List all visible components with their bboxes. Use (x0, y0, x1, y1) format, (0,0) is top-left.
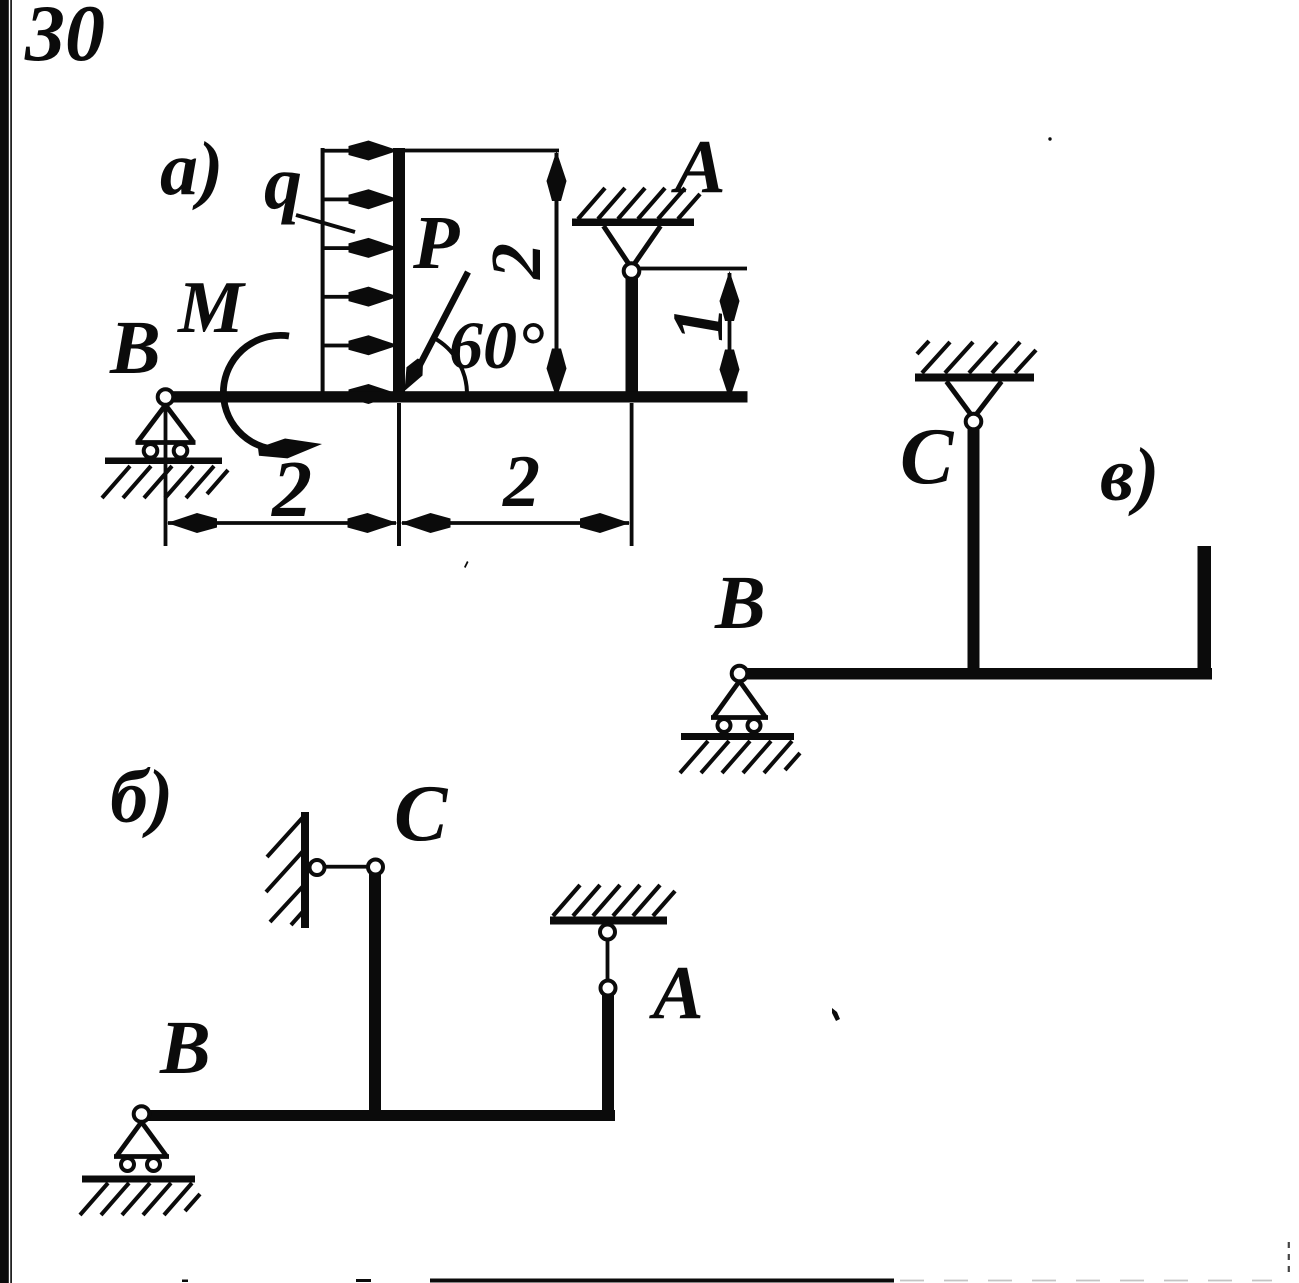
svg-text:1: 1 (658, 306, 738, 342)
svg-text:A: A (649, 951, 704, 1035)
support B triangle (136, 405, 196, 443)
bottom faint dashes (900, 1280, 1272, 1282)
dimension 1 (vertical) (720, 271, 740, 400)
distributed load q: left border line (321, 148, 325, 394)
support B (v) triangle (711, 681, 768, 718)
pin at A (624, 263, 640, 279)
stray ink dot top right (1048, 137, 1051, 140)
support C link triangle (947, 382, 1002, 419)
support B (b) triangle (114, 1122, 169, 1157)
svg-text:M: M (177, 267, 246, 349)
support A hatching (578, 188, 700, 219)
page gutter bar left edge (0, 0, 12, 1283)
svg-text:A: A (671, 125, 726, 209)
right upright stub (1198, 546, 1212, 680)
load arrow 1 (321, 141, 399, 161)
svg-text:2: 2 (476, 243, 556, 280)
stray ink speck (832, 1008, 840, 1021)
ground hatching under B (b) (80, 1183, 200, 1215)
svg-text:60°: 60° (449, 307, 544, 383)
extension line through support B (164, 405, 168, 546)
support C hatching (917, 341, 1036, 373)
support A link triangle (604, 226, 661, 268)
load arrow 4 (321, 287, 399, 307)
svg-text:B: B (159, 1006, 211, 1090)
rollers under B (b) (121, 1158, 160, 1171)
support C ceiling line (915, 374, 1034, 382)
support A (b) hatching (553, 885, 675, 916)
ground hatching under B (102, 466, 228, 498)
svg-text:B: B (109, 306, 161, 390)
svg-text:2: 2 (271, 446, 312, 534)
link bar wall to C (323, 865, 369, 869)
load arrow 2 (321, 189, 399, 209)
dimension extension line at column (397, 403, 401, 546)
force P arrow (396, 272, 468, 395)
svg-text:C: C (900, 413, 955, 501)
beam a) (163, 391, 748, 402)
link bar A (b) (606, 939, 610, 981)
ground line under B (105, 458, 222, 465)
svg-text:P: P (412, 201, 460, 285)
rollers under B (v) (718, 719, 761, 732)
ground line under B (b) (82, 1176, 195, 1183)
hanger bar C (v) (968, 429, 980, 679)
ground line under B (v) (681, 733, 794, 740)
svg-text:C: C (394, 770, 449, 858)
pin at B (v) (732, 666, 748, 682)
upper pin A (b) (600, 925, 615, 940)
dimension extension line at A hanger (630, 403, 634, 546)
60 degree angle arc (434, 338, 467, 393)
extension line at pin level (639, 267, 747, 271)
load arrow 6 on beam (349, 384, 399, 404)
dimension line column to A, value 2 (401, 513, 631, 533)
pin at C (b) (368, 860, 383, 875)
hanger bar A (b) (602, 995, 614, 1121)
leader line for q (296, 215, 355, 232)
load arrow 5 (321, 335, 399, 355)
svg-text:30: 30 (24, 0, 105, 78)
svg-text:б): б) (110, 755, 173, 839)
svg-text:B: B (714, 561, 766, 645)
hanger bar A (626, 278, 639, 402)
beam b) (139, 1110, 615, 1121)
svg-text:a): a) (160, 127, 223, 211)
pin at B (158, 389, 174, 405)
pin at wall (310, 860, 325, 875)
beam v) (739, 668, 1212, 680)
dimension line B to column, value 2 (167, 513, 398, 533)
top tie line to dimension (398, 149, 559, 153)
right edge dashes (1288, 1242, 1290, 1277)
svg-text:2: 2 (502, 441, 540, 523)
wall line (301, 812, 309, 928)
hanger bar C (b) (369, 874, 381, 1121)
pin at C (v) (966, 414, 982, 430)
pin at B (b) (134, 1106, 150, 1122)
moment M arc arrow (223, 335, 323, 461)
wall hatching (266, 815, 307, 925)
lower pin A (b) (601, 981, 616, 996)
load arrow 3 (321, 238, 399, 258)
bottom scan line (182, 1279, 894, 1283)
svg-text:q: q (264, 141, 302, 225)
support A ceiling line (572, 219, 694, 227)
rollers under B (144, 444, 188, 458)
column member at mid-beam (393, 148, 405, 402)
ground hatching under B (v) (680, 741, 800, 773)
svg-text:в): в) (1100, 433, 1159, 517)
support A (b) ceiling line (550, 917, 667, 925)
stray ink dot near dimension (464, 561, 469, 568)
dimension 2 (vertical) line with arrows (547, 151, 567, 399)
